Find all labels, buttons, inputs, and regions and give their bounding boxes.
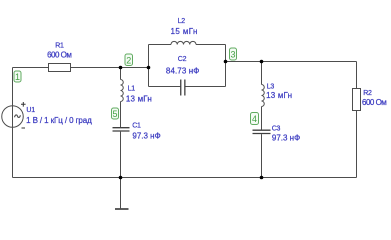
wire C3 to bus — [261, 134, 263, 177]
svg-text:L3: L3 — [267, 84, 275, 91]
node 4 label — [251, 113, 259, 125]
svg-text:84.73 нФ: 84.73 нФ — [166, 67, 200, 76]
svg-text:97.3 нФ: 97.3 нФ — [272, 134, 300, 143]
svg-text:L2: L2 — [178, 18, 186, 25]
capacitor C2 — [181, 80, 185, 96]
wire tank bottom-left segment — [149, 86, 182, 88]
svg-text:L1: L1 — [128, 86, 136, 93]
svg-text:C2: C2 — [178, 56, 187, 63]
svg-text:C3: C3 — [272, 126, 281, 133]
resistor R2 — [353, 89, 361, 111]
node 2 label — [125, 54, 133, 66]
wire L3 top lead — [261, 62, 263, 85]
wire left vertical — [12, 68, 14, 178]
wire right vertical bottom — [356, 111, 358, 178]
wire L1 to C1 — [120, 102, 122, 128]
wire top-left horizontal — [13, 67, 49, 69]
ground — [115, 178, 129, 210]
svg-text:1 В / 1 кГц / 0 град: 1 В / 1 кГц / 0 град — [26, 116, 92, 125]
U1 minus sign — [22, 127, 26, 129]
capacitor C1 — [113, 128, 130, 131]
capacitor C3 — [253, 130, 271, 133]
junction node 2 dot — [119, 66, 123, 70]
junction tank left dot — [147, 66, 151, 70]
wire tank right edge — [225, 45, 227, 87]
svg-text:4: 4 — [252, 114, 257, 124]
wire right bus — [226, 61, 357, 63]
svg-text:U1: U1 — [26, 107, 35, 114]
junction ground dot — [119, 176, 123, 180]
node 1 label — [14, 71, 21, 82]
svg-text:R2: R2 — [363, 90, 372, 97]
junction node 3 dot — [224, 60, 228, 64]
svg-text:R1: R1 — [55, 43, 64, 50]
junction L3 top dot — [260, 60, 264, 64]
svg-text:13 мГн: 13 мГн — [266, 91, 292, 100]
resistor R1 — [49, 64, 71, 72]
svg-text:15 мГн: 15 мГн — [171, 27, 198, 36]
wire bottom bus — [13, 177, 357, 179]
svg-text:97.3 нФ: 97.3 нФ — [132, 132, 160, 141]
svg-text:3: 3 — [230, 50, 235, 60]
inductor L3 — [262, 85, 265, 107]
inductor L1 — [121, 80, 124, 102]
node 3 label — [230, 48, 237, 60]
wire C1 to bus — [120, 132, 122, 178]
wire R1 to tank — [71, 67, 149, 69]
U1 plus sign — [21, 102, 26, 107]
svg-text:13 мГн: 13 мГн — [126, 95, 152, 104]
source U1 — [2, 106, 24, 128]
svg-text:600 Ом: 600 Ом — [47, 51, 71, 60]
wire tank top-left segment — [149, 44, 172, 46]
svg-text:C1: C1 — [132, 123, 141, 130]
svg-text:2: 2 — [126, 55, 131, 65]
node 5 label — [112, 108, 119, 119]
inductor L2 — [171, 41, 196, 44]
wire tank top-right segment — [196, 44, 226, 46]
wire tank bottom-right segment — [185, 86, 226, 88]
junction C3 bottom dot — [260, 176, 264, 180]
wire right vertical top — [356, 62, 358, 89]
wire L3 to C3 — [261, 107, 263, 130]
svg-text:5: 5 — [112, 109, 117, 119]
svg-text:600 Ом: 600 Ом — [362, 98, 386, 107]
wire tank left edge — [148, 45, 150, 87]
svg-text:1: 1 — [15, 72, 20, 82]
wire L1 top lead — [120, 68, 122, 80]
